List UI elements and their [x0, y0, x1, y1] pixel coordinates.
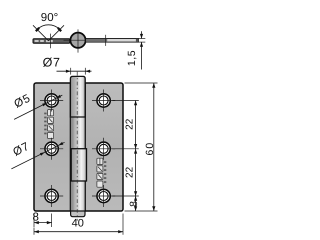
svg-text:40: 40 [72, 218, 84, 230]
knuckle shading band 4 [71, 181, 74, 211]
angle ray left [33, 25, 49, 41]
top edge extension [125, 82, 158, 84]
hole bottom-left [40, 185, 63, 207]
top view: circle vertical centerline [77, 29, 79, 52]
knuckle middle segment box [71, 149, 86, 181]
dim line 60 [152, 83, 155, 211]
pin bottom end [71, 211, 85, 217]
knuckle shading band 2 [71, 117, 74, 149]
bottom extension lines for 40 [33, 228, 35, 235]
top view: left hole centerline tick [49, 34, 51, 49]
stamp logo right leaf [97, 158, 106, 187]
front view: hinge body [34, 83, 123, 211]
barrel edge right [84, 83, 86, 211]
barrel edge left [69, 83, 71, 211]
top view: left leaf bar [33, 39, 70, 43]
hole bottom-right [92, 185, 115, 207]
svg-text:1,5: 1,5 [126, 50, 138, 66]
front view: knuckle barrel [70, 83, 85, 211]
thickness extension line top [139, 38, 146, 40]
svg-text:22: 22 [124, 118, 135, 130]
top view: right leaf bar [86, 39, 139, 43]
arc arrowhead left [36, 28, 39, 31]
stamp logo left leaf [44, 110, 53, 139]
svg-text:8: 8 [128, 201, 140, 207]
svg-text:8: 8 [32, 211, 38, 223]
hole top-left [40, 90, 63, 112]
dim line 40 [34, 230, 123, 233]
svg-text:Ø7: Ø7 [43, 55, 61, 69]
angle arc 90 deg [37, 25, 60, 30]
arc arrowhead right [58, 28, 61, 31]
right holes extension lines [113, 100, 139, 102]
svg-text:60: 60 [144, 142, 156, 156]
chain dimension line 22/22/8 [134, 101, 137, 212]
top view: right hole centerline tick [105, 35, 107, 46]
dia 7 top dimension [57, 68, 92, 75]
dia 7 leader middle hole [11, 142, 64, 169]
svg-text:22: 22 [124, 166, 135, 178]
bottom left extension lines [33, 214, 35, 228]
top view: circle horizontal centerline [64, 39, 94, 41]
angle ray right [49, 25, 65, 41]
knuckle top piece with pin end [70, 76, 85, 117]
pin centerline dash-dot [76, 72, 78, 221]
thickness extension line bottom [139, 41, 146, 43]
hole top-right [92, 90, 115, 112]
bottom edge extension [125, 210, 158, 212]
hole middle-right [92, 138, 115, 160]
dim line 1,5 [140, 31, 143, 69]
dim line 8 bottom left [34, 221, 52, 224]
svg-text:90°: 90° [41, 12, 58, 24]
hole middle-left [40, 138, 63, 160]
dia 5 leader [14, 95, 62, 120]
top view: knuckle circle [70, 33, 85, 48]
